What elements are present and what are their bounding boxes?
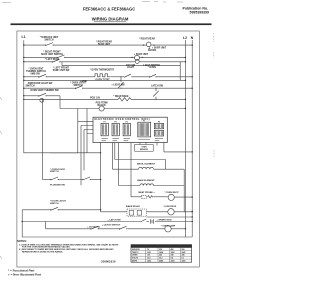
svg-text:+ SPARK MOD: + SPARK MOD — [156, 218, 172, 221]
svg-text:LOW DRIVE: LOW DRIVE — [164, 206, 177, 208]
svg-text:+ = Non-Illustrated Part: + = Non-Illustrated Part — [8, 273, 41, 277]
svg-text:240: 240 — [171, 254, 174, 257]
svg-text:* REAR BAKE: * REAR BAKE — [113, 95, 129, 98]
svg-text:SENSOR: SENSOR — [132, 249, 140, 251]
svg-text:OVEN VENT THERMO SW: OVEN VENT THERMO SW — [30, 90, 59, 92]
svg-text:L1: L1 — [22, 35, 26, 39]
svg-text:550: 550 — [182, 249, 185, 251]
svg-text:P7: P7 — [143, 121, 145, 123]
svg-text:AMB SW: AMB SW — [30, 72, 40, 75]
svg-text:5995399399: 5995399399 — [190, 11, 210, 15]
svg-text:P9: P9 — [158, 122, 160, 124]
svg-text:REPAIR WORK IS DONE ON THE RAN: REPAIR WORK IS DONE ON THE RANGE. — [22, 250, 63, 253]
svg-text:1091: 1091 — [147, 252, 151, 254]
svg-text:70: 70 — [147, 249, 149, 251]
svg-text:* OVEN RECP: * OVEN RECP — [164, 192, 179, 194]
svg-text:AMPS: AMPS — [132, 260, 138, 263]
svg-text:LATCH SW: LATCH SW — [151, 85, 164, 88]
svg-text:LIGHT: LIGHT — [127, 67, 134, 69]
svg-text:SWITCH: SWITCH — [73, 85, 82, 87]
svg-text:10.2: 10.2 — [159, 258, 163, 260]
svg-text:SURF UNIT SWITCH: SURF UNIT SWITCH — [41, 54, 63, 56]
svg-text:NOTES:: NOTES: — [17, 239, 27, 243]
svg-text:+ SURF UNIT: + SURF UNIT — [134, 54, 149, 56]
svg-text:6.1: 6.1 — [182, 258, 185, 260]
svg-text:OHMS: OHMS — [132, 255, 138, 257]
svg-text:P3: P3 — [126, 122, 128, 124]
svg-text:CHOKE: CHOKE — [148, 50, 157, 52]
svg-text:SWITCH: SWITCH — [25, 85, 34, 87]
svg-text:+ LATCH SW: + LATCH SW — [107, 219, 121, 222]
svg-text:PLUNGER SW: PLUNGER SW — [50, 184, 66, 186]
svg-text:P1: P1 — [104, 122, 106, 124]
svg-text:* LEFT REAR: * LEFT REAR — [45, 58, 60, 61]
svg-text:* RIGHT REAR: * RIGHT REAR — [139, 38, 155, 41]
svg-text:FEF366ACC & FEF366AGC: FEF366ACC & FEF366AGC — [83, 7, 135, 12]
svg-text:8.4: 8.4 — [171, 257, 174, 260]
svg-text:SURF UNIT: SURF UNIT — [98, 44, 111, 46]
svg-text:120: 120 — [147, 255, 150, 257]
svg-text:350: 350 — [159, 249, 162, 251]
svg-text:TEMP F: TEMP F — [132, 252, 139, 254]
svg-text:OVEN TSTAT: OVEN TSTAT — [95, 79, 110, 82]
svg-text:+ LATCH SWITCH: + LATCH SWITCH — [102, 224, 121, 227]
svg-text:240: 240 — [182, 254, 185, 257]
svg-text:WIRING DIAGRAM: WIRING DIAGRAM — [92, 17, 129, 22]
svg-text:SURF UNIT SW: SURF UNIT SW — [53, 70, 70, 72]
svg-text:P2: P2 — [115, 122, 117, 124]
svg-text:SWITCH: SWITCH — [44, 39, 53, 41]
svg-text:1500: 1500 — [147, 261, 151, 263]
svg-text:BAKE RELAY: BAKE RELAY — [126, 205, 141, 208]
svg-text:450: 450 — [171, 248, 174, 251]
svg-text:SENSOR: SENSOR — [140, 149, 149, 151]
svg-text:2047: 2047 — [182, 251, 186, 254]
svg-text:+ MOD: + MOD — [80, 81, 88, 83]
svg-text:SWITCH: SWITCH — [50, 171, 59, 173]
svg-text:12.5: 12.5 — [147, 258, 151, 260]
svg-text:BLOCK: BLOCK — [98, 105, 107, 107]
svg-text:* OVEN: * OVEN — [148, 67, 156, 69]
svg-text:1852: 1852 — [171, 252, 175, 254]
svg-text:BROIL ELEMENT: BROIL ELEMENT — [137, 164, 155, 166]
svg-text:SWITCH: SWITCH — [50, 203, 59, 205]
svg-text:3410: 3410 — [182, 260, 186, 263]
svg-text:316001610: 316001610 — [101, 259, 116, 263]
svg-text:* OVEN THERMOSTAT: * OVEN THERMOSTAT — [90, 68, 115, 71]
svg-text:3000: 3000 — [171, 261, 175, 263]
svg-text:BAKE ELEMENT: BAKE ELEMENT — [137, 179, 155, 182]
svg-text:POS 1 IN: POS 1 IN — [90, 97, 100, 99]
svg-text:VOLTS: VOLTS — [132, 258, 139, 260]
svg-text:240: 240 — [159, 254, 162, 257]
svg-text:* OVEN LAMP: * OVEN LAMP — [161, 225, 176, 228]
svg-text:2585: 2585 — [159, 261, 163, 263]
svg-text:1654: 1654 — [159, 251, 163, 254]
svg-text:+ LIGHT SW: + LIGHT SW — [111, 84, 125, 86]
svg-text:MEAT PROBE +: MEAT PROBE + — [138, 191, 155, 194]
svg-text:L2: L2 — [183, 36, 187, 40]
